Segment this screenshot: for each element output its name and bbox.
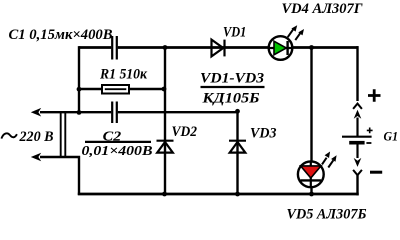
wire bottom rail [78, 193, 359, 196]
label minus terminal [370, 171, 382, 174]
label C2 value fraction [82, 130, 153, 158]
wire second rail through C2 [40, 111, 238, 113]
svg-text:R1 510к: R1 510к [99, 66, 148, 82]
wire top rail [79, 46, 358, 49]
svg-text:220 В: 220 В [19, 129, 54, 145]
wire mid vertical through VD2 [164, 46, 166, 195]
wire R1 branch [79, 88, 165, 90]
label C1 value [9, 27, 113, 43]
svg-text:КД105Б: КД105Б [201, 91, 259, 107]
label VD1 [223, 25, 246, 41]
svg-text:C1 0,15мк×400В: C1 0,15мк×400В [9, 27, 113, 43]
wire VD5 vertical [310, 46, 312, 195]
capacitor C2 [112, 102, 117, 124]
label VD5 type [287, 207, 367, 223]
svg-text:VD5 АЛ307Б: VD5 АЛ307Б [287, 207, 367, 221]
label G1 [384, 129, 399, 143]
label VD2 [172, 124, 198, 140]
svg-text:0,01×400В: 0,01×400В [82, 143, 153, 158]
wire plug lower arm [40, 156, 80, 195]
node dot R1 right [162, 87, 167, 92]
capacitor C1 [112, 36, 117, 60]
svg-text:VD4 АЛ307Г: VD4 АЛ307Г [282, 1, 363, 17]
node dot bottom rail at VD3 [235, 192, 240, 197]
wire right vertical to battery plus [356, 46, 358, 101]
battery G1 [342, 128, 373, 144]
label VD1-VD3 type fraction [200, 71, 265, 107]
node dot VD3 top [235, 109, 240, 114]
label VD4 type [282, 1, 363, 17]
node dot R1 left [77, 87, 82, 92]
node dot top rail at VD5 branch [309, 45, 314, 50]
LED VD5 red [298, 152, 337, 188]
diode VD1 [212, 40, 225, 57]
svg-text:G1: G1 [384, 129, 399, 143]
diode VD2 [157, 141, 174, 153]
svg-text:VD3: VD3 [250, 126, 277, 142]
svg-text:VD1-VD3: VD1-VD3 [200, 71, 264, 87]
node dot bottom rail at VD2 [162, 192, 167, 197]
connector arrow battery minus [353, 145, 362, 176]
diode VD3 [229, 141, 246, 153]
wire battery minus to bottom rail [356, 175, 358, 196]
label plus terminal [368, 89, 381, 102]
wire left vertical [78, 46, 80, 113]
resistor R1 [102, 85, 129, 94]
wire VD3 vertical [236, 111, 238, 195]
node dot top rail at VD2 branch [163, 45, 168, 50]
mains plug pin arrows and connector X1 [31, 108, 66, 161]
node dot second rail left [77, 110, 82, 115]
label ~220 V mains [1, 129, 53, 145]
LED VD4 green [268, 25, 304, 60]
svg-text:VD1: VD1 [223, 25, 246, 41]
connector arrow battery plus [353, 104, 362, 136]
label VD3 [250, 126, 277, 142]
svg-text:VD2: VD2 [172, 124, 198, 140]
node dot bottom rail at VD5 [309, 192, 314, 197]
label R1 value [99, 66, 148, 82]
